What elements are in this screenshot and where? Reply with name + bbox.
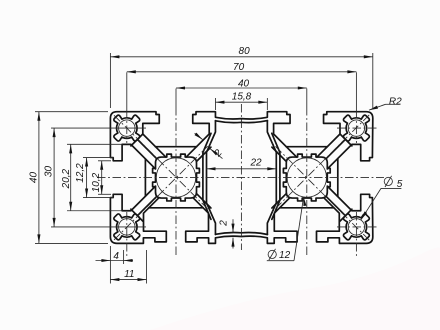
petal cavity BL corner	[114, 214, 140, 240]
hole ∅5 BL	[119, 219, 135, 235]
central cavity left wall and webs	[207, 121, 216, 235]
central cavity floor membrane	[216, 232, 268, 234]
svg-text:15,8: 15,8	[232, 92, 252, 103]
boss around left ∅12 hole	[153, 154, 200, 201]
dim 20,2 left	[70, 144, 72, 210]
svg-text:R2: R2	[389, 96, 402, 107]
bottom slot2 channel bottom	[280, 207, 334, 209]
dim 15,8 top	[215, 101, 267, 103]
left slot channel bottom	[144, 159, 146, 196]
svg-text:2: 2	[218, 220, 229, 227]
svg-text:11: 11	[124, 269, 134, 280]
dim 70 top	[127, 71, 357, 73]
svg-text:5: 5	[397, 179, 403, 190]
hole ∅5 TL	[119, 120, 135, 136]
profile outer outline with T-slots	[110, 112, 165, 169]
leader R2	[369, 104, 386, 110]
callout 2 bottom membrane	[232, 219, 234, 232]
svg-text:70: 70	[233, 62, 245, 73]
top slot1 channel bottom	[156, 146, 197, 148]
dim 22 central cavity	[207, 168, 277, 170]
petal cavity TR corner	[343, 115, 369, 141]
svg-text:10,2: 10,2	[91, 172, 102, 192]
right slot channel bottom	[337, 159, 339, 196]
svg-text:22: 22	[249, 158, 262, 169]
callout 2 top wall	[195, 133, 203, 139]
hole ∅12 left	[156, 158, 195, 197]
dim 4 bottom	[96, 260, 134, 262]
svg-text:40: 40	[238, 79, 250, 90]
boss around right ∅12 hole	[283, 154, 330, 201]
svg-text:80: 80	[239, 46, 251, 57]
dim 80 top	[110, 56, 372, 58]
petal cavity BR corner	[343, 214, 369, 240]
svg-text:12: 12	[279, 250, 291, 261]
dim 40 left	[38, 112, 40, 244]
hole ∅5 TR	[348, 120, 364, 136]
dim 40 top	[176, 87, 307, 89]
web BR block to right boss	[340, 209, 352, 221]
web BL block to left boss	[131, 209, 143, 221]
central cavity right wall and webs	[267, 121, 276, 235]
svg-text:20,2: 20,2	[61, 168, 72, 189]
dim 12,2 left	[86, 158, 88, 198]
central cavity ceiling membrane	[216, 121, 268, 123]
svg-text:4: 4	[113, 251, 119, 262]
centerlines dash-dot	[97, 177, 384, 179]
leader ∅12	[267, 260, 294, 262]
faint background wash	[150, 248, 440, 330]
hole ∅12 right	[287, 158, 326, 197]
dim 30 left	[53, 128, 55, 227]
dim 10,2 left	[101, 161, 103, 195]
web TL block to left boss	[131, 134, 143, 146]
dim 11 bottom	[110, 279, 146, 281]
svg-text:30: 30	[44, 166, 55, 178]
bottom slot1 channel bottom	[149, 207, 203, 209]
petal cavity TL corner	[114, 115, 140, 141]
leader ∅5	[381, 187, 401, 189]
top slot2 channel bottom	[286, 146, 327, 148]
hole ∅5 BR	[348, 219, 364, 235]
web TR block to right boss	[340, 134, 352, 146]
svg-text:12,2: 12,2	[75, 163, 86, 183]
svg-text:2: 2	[212, 147, 225, 159]
svg-text:40: 40	[28, 172, 39, 184]
